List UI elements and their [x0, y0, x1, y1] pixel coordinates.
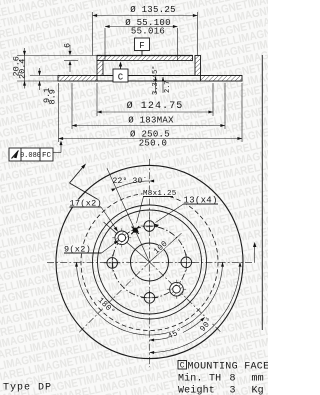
svg-text:22° 30´: 22° 30´: [112, 177, 147, 186]
bolt hole 13mm top: [141, 225, 158, 227]
counterbored hole 17/9mm lower-right: [167, 288, 186, 290]
label 9(x2): [64, 245, 92, 255]
hat inner circle: [98, 210, 202, 314]
braking band left hatched section: [58, 76, 97, 82]
center bore circle: [131, 243, 169, 281]
chamfer dim 3.3x45 and 2.7: [155, 77, 157, 93]
dim 20.6/20.4: [17, 55, 97, 57]
svg-text:20.4: 20.4: [18, 59, 28, 79]
label 100: [152, 239, 169, 256]
label 90deg: [198, 316, 215, 334]
hat right wall hatched: [195, 56, 201, 76]
datum F box: [141, 51, 143, 56]
braking band right hatched section: [201, 76, 243, 82]
svg-text:Ø 183MAX: Ø 183MAX: [128, 116, 174, 126]
svg-text:Ø 124.75: Ø 124.75: [127, 100, 184, 112]
svg-text:8: 8: [230, 374, 236, 385]
counterbored hole 17/9mm upper-left: [112, 237, 131, 239]
hat mounting plate hatched: [97, 56, 193, 61]
svg-text:F: F: [139, 41, 144, 51]
dashed circle dia 183: [81, 194, 218, 331]
SW diagonal centerline: [79, 262, 150, 333]
threaded hole M8: [133, 228, 138, 233]
svg-text:MOUNTING FACE: MOUNTING FACE: [188, 362, 269, 373]
svg-text:3.3x45°: 3.3x45°: [151, 66, 160, 95]
svg-text:C: C: [118, 73, 124, 83]
svg-text:6: 6: [63, 43, 73, 48]
arc dim 45deg: [150, 317, 205, 340]
dim 250.5/250.0: [58, 83, 60, 142]
label M8x1.25: [143, 190, 177, 198]
right radial marker arrow: [254, 246, 256, 262]
svg-text:Ø 135.25: Ø 135.25: [130, 5, 176, 15]
NW radial through counterbore: [104, 222, 150, 262]
bolt hole 13mm bottom: [141, 297, 158, 299]
dim 135.25 line: [93, 15, 198, 17]
flatness tolerance frame 0.080 FC: [9, 148, 53, 161]
bolt hole 13mm left: [104, 262, 121, 264]
dim 6 hat plate thickness: [64, 60, 78, 62]
svg-text:C: C: [180, 362, 185, 371]
dim 183MAX: [71, 83, 73, 129]
front view outer disc edge: [56, 165, 243, 358]
svg-text:55.016: 55.016: [131, 27, 165, 37]
svg-text:3: 3: [230, 386, 236, 395]
surface leader arrow pointing NE at disc edge: [70, 183, 99, 200]
NE radial with 100 dim: [150, 233, 182, 262]
dim 9.1/8.9: [30, 75, 58, 77]
bore edge lines: [104, 28, 106, 61]
arc dim 90deg: [150, 262, 241, 353]
svg-text:Type DP: Type DP: [3, 383, 52, 394]
dim 124.75: [96, 83, 98, 116]
drawing border line right: [261, 55, 263, 330]
label 13(x4): [183, 196, 218, 206]
svg-text:Kg: Kg: [252, 386, 264, 395]
svg-text:0.080: 0.080: [20, 152, 41, 160]
bolt hole 13mm right: [178, 261, 195, 263]
M8 radial: [107, 168, 150, 262]
arc dim 22deg30: [116, 181, 150, 188]
svg-text:250.0: 250.0: [139, 139, 168, 149]
bolt circle dash-dot: [113, 226, 187, 298]
hat outer circle: [93, 205, 207, 319]
horizontal centerline: [47, 261, 255, 263]
svg-text:FC: FC: [42, 152, 52, 160]
arc dim 180deg: [77, 262, 223, 335]
vertical centerline: [149, 159, 151, 367]
dim 135.25 extension lines: [92, 12, 94, 56]
mounting face top line: [97, 55, 193, 57]
label 180deg: [96, 296, 117, 317]
braking band bottom surface line: [58, 80, 242, 82]
svg-text:mm: mm: [252, 374, 264, 385]
svg-text:Min.: Min.: [178, 373, 203, 385]
mounting face C box with arrow: [119, 62, 122, 67]
mounting face note: [178, 361, 187, 370]
svg-text:Weight: Weight: [178, 385, 215, 395]
svg-text:TH: TH: [209, 374, 221, 385]
flatness frame leader arrow: [53, 152, 61, 154]
svg-text:2.7: 2.7: [164, 80, 172, 93]
label 17(x2): [69, 199, 102, 209]
hat left wall hatched: [97, 61, 103, 76]
braking band top surface line: [58, 75, 242, 77]
dim 55.1 line: [105, 26, 178, 28]
label 45deg: [166, 327, 184, 342]
SE diagonal centerline: [150, 262, 222, 333]
svg-text:8.9: 8.9: [48, 89, 58, 104]
